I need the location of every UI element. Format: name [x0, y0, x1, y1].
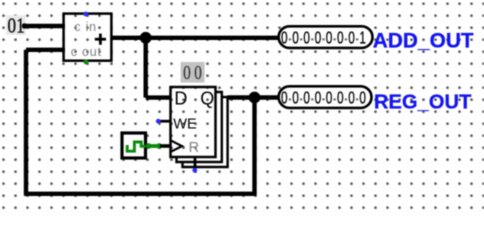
- svg-text:0: 0: [303, 28, 310, 48]
- wire into register D input: [146, 95, 171, 99]
- svg-text:0: 0: [281, 28, 288, 48]
- svg-text:0: 0: [348, 28, 355, 48]
- svg-text:0: 0: [315, 88, 322, 108]
- svg-text:0: 0: [194, 63, 202, 84]
- svg-text:R: R: [189, 140, 199, 156]
- register R1 main box: [171, 87, 216, 157]
- svg-text:D: D: [174, 88, 187, 108]
- probe REG_OUT body: [279, 86, 372, 108]
- register stack whitespace (hides grid between shadow edges): [217, 93, 228, 163]
- wire register Q to REG_OUT probe: [216, 95, 280, 99]
- probe ADD_OUT body: [279, 26, 373, 48]
- svg-text:0: 0: [326, 28, 333, 48]
- wire right vertical feedback: [252, 98, 256, 194]
- svg-text:0: 0: [281, 88, 288, 108]
- svg-text:0: 0: [337, 28, 344, 48]
- svg-text:c out: c out: [71, 45, 102, 59]
- wire adder input B horizontal: [26, 48, 65, 52]
- wire junction down to D: [143, 38, 147, 98]
- register clock triangle: [171, 140, 183, 152]
- wire adder output to ADD_OUT probe: [111, 36, 280, 40]
- constant 01: [6, 13, 26, 37]
- adder U1: [64, 14, 112, 61]
- svg-text:ADD_OUT: ADD_OUT: [373, 30, 474, 53]
- probe REG_OUT bit separator dots: [289, 98, 358, 100]
- wire constant to adder input A: [22, 23, 65, 28]
- register WE stub wire: [160, 120, 171, 123]
- probe ADD_OUT digits 00000001: [281, 28, 366, 48]
- register clock stub wire: [160, 144, 171, 148]
- adder carry-out pin (low, green): [84, 60, 89, 65]
- register reset pin (floating, blue): [192, 168, 197, 173]
- wire bottom horizontal: [24, 192, 257, 196]
- register R1 stacked shadow boxes: [177, 92, 228, 167]
- svg-text:Q: Q: [200, 89, 214, 109]
- wire left vertical: [24, 50, 28, 194]
- clock wire (low, green): [148, 144, 159, 148]
- register WE pin (floating, blue): [156, 119, 161, 124]
- svg-text:0: 0: [292, 88, 299, 108]
- svg-text:REG_OUT: REG_OUT: [374, 91, 471, 113]
- probe ADD_OUT bit separator dots: [289, 38, 358, 40]
- adder carry-in pin (floating, blue): [83, 12, 88, 17]
- junction node (adder out): [140, 32, 152, 44]
- register reset stub: [194, 157, 197, 169]
- svg-text:0: 0: [348, 88, 355, 108]
- svg-text:0: 0: [292, 28, 299, 48]
- clock output pin dot: [146, 143, 152, 149]
- svg-text:0: 0: [359, 88, 366, 108]
- svg-text:0: 0: [183, 63, 191, 84]
- svg-text:1: 1: [359, 28, 366, 48]
- svg-text:0: 0: [303, 88, 310, 108]
- svg-text:0: 0: [315, 28, 322, 48]
- clock wire end dot: [156, 143, 162, 149]
- svg-text:0: 0: [337, 88, 344, 108]
- svg-text:c in: c in: [74, 20, 97, 34]
- clock CLK1: [122, 133, 146, 158]
- junction node (reg out): [249, 92, 261, 104]
- register value label 00: [181, 62, 205, 84]
- probe REG_OUT digits 00000000: [281, 88, 366, 108]
- svg-text:0: 0: [326, 88, 333, 108]
- svg-text:WE: WE: [173, 117, 197, 133]
